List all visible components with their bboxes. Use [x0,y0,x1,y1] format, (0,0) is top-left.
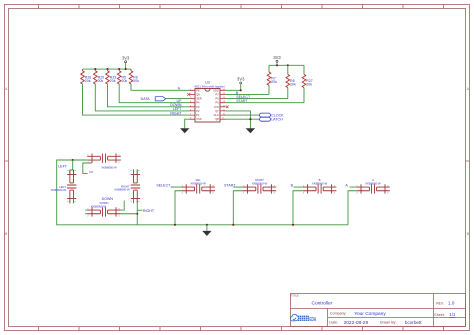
power flag 3V3 (left) [122,56,130,70]
svg-text:P2: P2 [196,109,200,113]
junction at LATCH/ground [249,118,251,120]
svg-text:20k: 20k [271,80,277,84]
resistor R25 [94,69,105,84]
svg-text:XKB8060-W: XKB8060-W [101,166,117,170]
wire: right pull-up rail [269,64,304,66]
svg-text:DOWN: DOWN [102,197,114,201]
junction RIGHT/DOWN [136,213,138,215]
pin numbers [190,89,226,120]
svg-text:RIGHT: RIGHT [170,111,182,115]
svg-text:P6: P6 [216,97,220,101]
svg-text:TITLE:: TITLE: [291,294,300,298]
resistor R7 [267,65,277,94]
svg-text:VSS: VSS [196,117,201,121]
svg-text:XKB8060-W: XKB8060-W [51,188,67,192]
node LEFT label [58,165,68,169]
svg-text:P5: P5 [216,101,220,105]
svg-text:bcorbett: bcorbett [405,320,422,325]
pushbutton B (XKB8060-W) [303,178,337,195]
svg-text:2022-08-29: 2022-08-29 [344,320,369,326]
svg-text:P3: P3 [196,105,200,109]
svg-text:VDD: VDD [213,88,219,92]
svg-text:Q7: Q7 [215,109,219,113]
wire: VSS to ground [185,119,190,128]
junction on top rail [72,159,74,161]
svg-text:Your Company: Your Company [354,311,386,317]
svg-text:DATA: DATA [141,97,151,101]
wire: CLOCK row [226,114,260,116]
wire: to LEFT button top [70,160,74,175]
resistor R8 [286,65,296,98]
junction ground/rail [206,224,208,226]
svg-text:20k: 20k [133,79,139,83]
pin names [196,88,219,121]
no-connect pin 2 left [187,93,190,96]
wire: START drop [233,191,242,225]
wire: R26 to pin RIGHT row [83,84,190,115]
no-connect pin 12 right [226,106,229,109]
wire: R23 to pin DOWN row [108,84,190,107]
logo JLC EDA [290,314,316,322]
wire: left ground loop [57,160,348,225]
node LEFT label [173,107,183,111]
svg-text:1/1: 1/1 [449,312,456,317]
svg-text:Company:: Company: [330,312,346,316]
pushbutton SEL (XKB8060-W) [181,178,215,195]
svg-text:20k: 20k [85,79,91,83]
svg-text:START: START [224,183,236,187]
wire: DOWN net stub [121,201,124,211]
power flag 3V3 (right) [273,55,281,65]
svg-text:XKB8060-W: XKB8060-W [312,181,328,185]
node B label [236,91,239,95]
svg-text:REV:: REV: [436,301,444,305]
wire: LEFT button bottom stubs [70,199,74,204]
wire: P/S row down to ground [226,111,251,128]
svg-text:P4: P4 [196,101,200,105]
wire: RIGHT button top stubs [134,169,138,174]
pushbutton START (XKB8060-W) [243,178,277,195]
node B label [291,183,294,187]
svg-text:EDA: EDA [309,317,316,323]
svg-text:Drawn By:: Drawn By: [380,320,397,324]
wire: START row to R27 [226,102,305,104]
wire: START net [233,186,242,188]
svg-text:Controller: Controller [312,300,333,306]
wire: SELECT row to R8 [226,98,288,100]
svg-text:XKB8060-W: XKB8060-W [114,188,130,192]
svg-text:SER: SER [196,97,201,101]
svg-text:20k: 20k [110,79,116,83]
ground (below IC right) [246,128,255,133]
wire: DOWN to RIGHT drop [121,213,137,215]
svg-text:XKB8060-W: XKB8060-W [191,181,207,185]
junction dots on left rail [94,68,126,70]
pushbutton RIGHT (XKB8060-W) [114,170,140,204]
svg-text:1.0: 1.0 [448,301,455,306]
wire: RIGHT net stub [137,209,142,211]
wire: SEL drop [175,191,181,225]
resistor R5 [117,69,127,84]
op IC U3 4021 shift register [190,81,226,122]
ground (below IC left) [180,128,189,133]
wire: ground stem [206,225,208,231]
resistor R6 [129,69,139,84]
svg-text:Sheet:: Sheet: [434,313,444,317]
pushbutton LEFT (XKB8060-W) [51,170,77,204]
node DOWN label [170,103,182,107]
svg-text:P1: P1 [196,113,200,117]
port CLOCK [260,113,285,118]
net flag DATA [141,97,166,101]
wire: SELECT net [171,186,182,188]
ground (bottom) [202,231,211,236]
svg-text:Q8: Q8 [215,117,219,121]
svg-text:RIGHT: RIGHT [143,209,155,213]
svg-text:LEFT: LEFT [58,165,68,169]
wire: A net [350,186,357,188]
svg-text:XKB8060-W: XKB8060-W [91,204,107,208]
right pins [220,90,226,119]
node START label [224,183,236,187]
node RIGHT label [143,209,155,213]
svg-text:UP: UP [89,170,93,174]
node SELECT label [236,95,251,99]
svg-text:LATCH: LATCH [271,118,283,122]
svg-text:P8: P8 [196,88,200,92]
wire: VDD to 3V3 riser [226,84,241,90]
wire: R25 to pin LEFT row [95,84,189,111]
pushbutton DOWN (XKB8060-W) [87,201,121,218]
power flag 3V3 (IC) [237,77,245,84]
wire: B net [294,186,303,188]
node DOWN label [102,197,114,201]
svg-text:P/S: P/S [215,105,219,109]
wire: RIGHT button drop to rail [134,199,138,225]
svg-text:20k: 20k [98,79,104,83]
pushbutton UP (XKB8060-W) [87,154,121,174]
junction SEL/rail [174,224,176,226]
wire: net B row to R7 [226,93,270,95]
node SELECT label [156,183,171,187]
wire: DOWN left ticks [85,210,87,214]
wire: B drop [293,191,303,225]
svg-text:20k: 20k [306,83,312,87]
svg-text:20k: 20k [290,83,296,87]
resistor R26 [81,69,92,84]
junction START/rail [232,224,234,226]
wire: DATA to pin [166,98,190,100]
wire: LATCH row [226,118,260,120]
wire: A drop [348,191,356,225]
svg-text:20k: 20k [122,79,128,83]
node A label [178,87,181,91]
node START label [236,99,248,103]
junction dots right rail [276,64,289,66]
node UP label [177,99,183,103]
resistor R23 [106,69,117,84]
node RIGHT label [170,111,182,115]
svg-text:XKB8060-W: XKB8060-W [252,181,268,185]
wire: R6 to pin A row [131,84,190,90]
wire: UP net stub [83,163,92,173]
junction at VDD riser [240,89,242,91]
svg-text:SELECT: SELECT [156,183,171,187]
svg-text:P7: P7 [216,92,220,96]
node A label [345,183,348,187]
svg-text:CLK: CLK [214,113,219,117]
svg-text:START: START [236,99,248,103]
left pins [190,90,196,119]
svg-text:Q6: Q6 [196,92,200,96]
pushbutton A (XKB8060-W) [356,178,390,195]
port LATCH [260,117,284,122]
wire: R5 to pin UP row [119,84,189,103]
svg-text:XKB8060-W: XKB8060-W [365,181,381,185]
wire: left pull-up top rail [83,68,132,70]
junction B/rail [292,224,294,226]
svg-text:Date:: Date: [329,320,338,324]
resistor R27 [302,65,313,102]
